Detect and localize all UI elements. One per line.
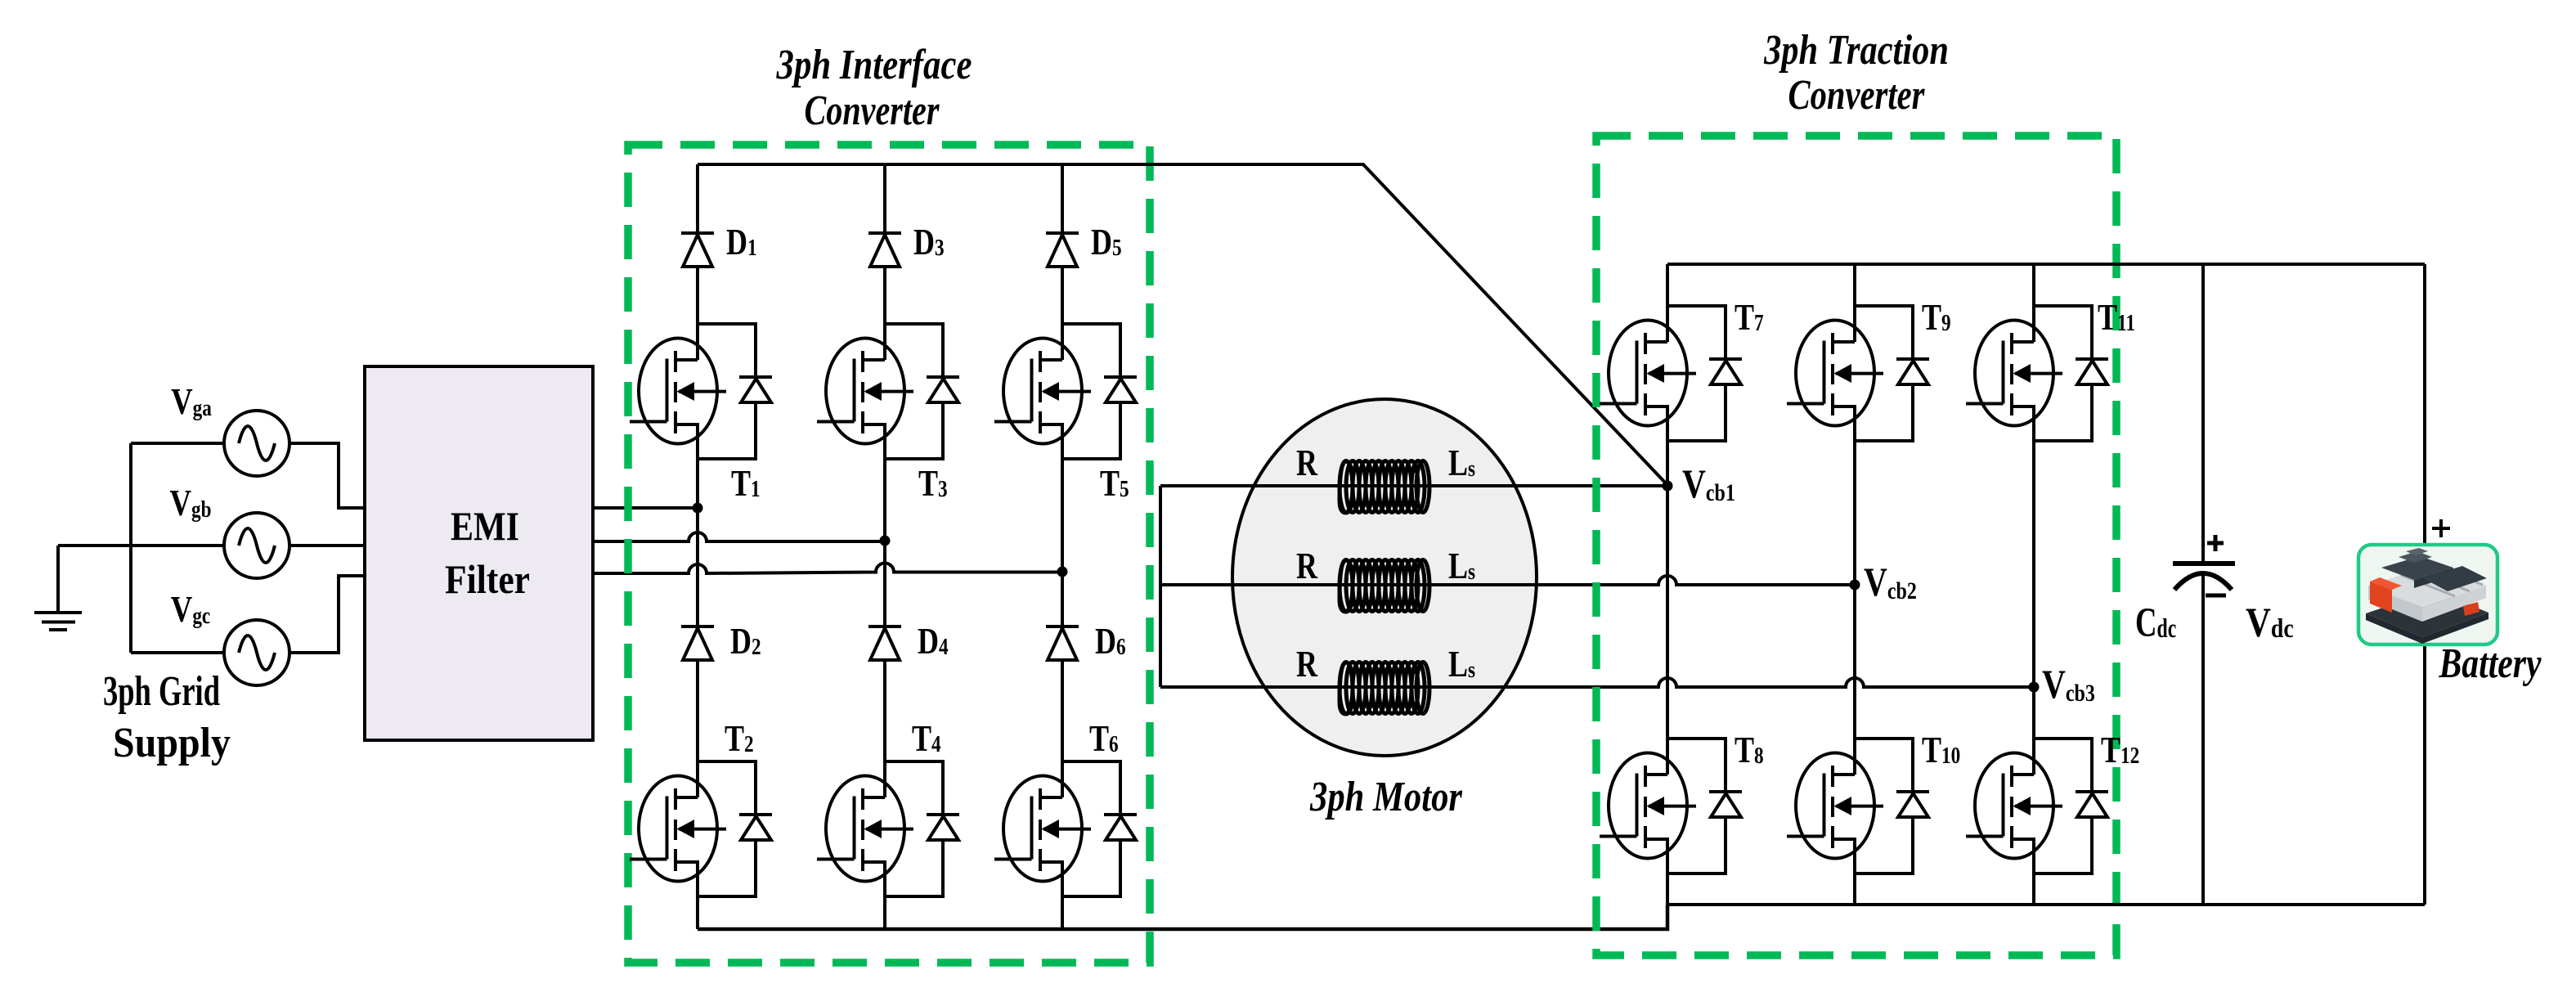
label 3ph Traction Converter — [1763, 27, 1949, 74]
inductor coil phase 2 — [1340, 560, 1429, 613]
interface converter dashed border — [628, 145, 1150, 963]
node A — [693, 503, 703, 514]
label Cdc — [2135, 599, 2176, 645]
wire: traction leg1 top — [1666, 264, 1669, 486]
wire: traction leg2 top — [1853, 264, 1856, 585]
transistor T3 — [817, 324, 959, 459]
svg-text:Filter: Filter — [445, 557, 530, 602]
node Vcb3 — [2029, 682, 2040, 693]
dark module right — [2423, 566, 2487, 591]
diode D5 — [1046, 233, 1079, 267]
svg-text:3ph Grid: 3ph Grid — [103, 667, 220, 715]
diode D4 — [868, 626, 901, 660]
ground — [34, 546, 131, 630]
svg-text:R: R — [1296, 442, 1318, 483]
label Vdc — [2246, 600, 2294, 646]
wire: traction leg2 bottom — [1853, 585, 1856, 905]
wire: traction bottom bus — [1667, 903, 2425, 906]
wire: traction leg3 top — [2032, 264, 2035, 687]
transistor T10 — [1787, 739, 1929, 873]
wire: source Vgc leads — [131, 576, 365, 653]
transistor T12 — [1966, 739, 2108, 873]
battery icon — [2358, 545, 2497, 644]
traction converter dashed border — [1596, 136, 2116, 955]
wire: phase C EMI to leg3 (hops over legs 1,2) — [593, 564, 1062, 574]
wire: interface leg2 top — [883, 164, 886, 541]
wire: Cdc branch — [2201, 264, 2205, 905]
wire: interface leg2 bottom — [883, 541, 886, 929]
wire: motor phase 3 to Vcb3 (hops over traction legs 1,2) — [1160, 678, 2034, 687]
top knob — [2399, 551, 2432, 563]
wire: interface bottom bus to traction — [698, 905, 1667, 929]
transistor T1 — [630, 324, 772, 459]
plus sign at battery — [2432, 519, 2450, 537]
svg-text:Battery: Battery — [2439, 640, 2542, 687]
transistor T4 — [817, 761, 959, 896]
wire: motor phase 2 to Vcb2 (hop over traction leg1) — [1160, 576, 1855, 585]
label Battery — [2439, 640, 2542, 687]
inductor coil phase 1 — [1340, 461, 1429, 514]
wire: source Vga leads — [131, 443, 365, 508]
AC source Vgc — [224, 620, 289, 685]
transistor T2 — [630, 761, 772, 896]
svg-text:3ph Motor: 3ph Motor — [1309, 774, 1462, 820]
diode D2 — [681, 626, 714, 660]
label 3ph Interface Converter — [776, 42, 972, 88]
diode D1 — [681, 233, 714, 267]
inductor coil phase 3 — [1340, 662, 1429, 715]
AC source Vgb — [224, 513, 289, 578]
wire: phase A EMI to leg1 — [593, 506, 698, 510]
wire: traction leg3 bottom — [2032, 687, 2035, 905]
wire: traction top bus — [1667, 263, 2425, 266]
wire: phase B EMI to leg2 (hop over leg1) — [593, 532, 885, 541]
label 3ph Grid Supply — [103, 667, 220, 715]
transistor T11 — [1966, 306, 2108, 441]
svg-text:Converter: Converter — [805, 88, 940, 134]
red cell — [2370, 582, 2392, 613]
svg-text:3ph Traction: 3ph Traction — [1763, 27, 1949, 74]
svg-text:Converter: Converter — [1788, 71, 1926, 119]
base skid — [2366, 591, 2488, 637]
capacitor Cdc — [2173, 535, 2235, 595]
wire: interface leg3 bottom — [1061, 572, 1064, 929]
node Vcb1 — [1663, 481, 1673, 492]
node B — [880, 536, 891, 546]
diode D3 — [868, 233, 901, 267]
wire: traction leg1 bottom — [1666, 486, 1669, 905]
svg-text:3ph Interface: 3ph Interface — [776, 42, 972, 88]
svg-text:R: R — [1296, 546, 1318, 586]
dark module left — [2381, 556, 2453, 580]
wire: source Vgb leads — [131, 544, 365, 547]
wire: interface leg1 bottom — [696, 508, 699, 929]
wire: interface leg3 top — [1061, 164, 1064, 572]
transistor T9 — [1787, 306, 1929, 441]
3ph motor body — [1232, 399, 1537, 756]
diode D6 — [1046, 626, 1079, 660]
wire: motor star bus — [1159, 486, 1162, 687]
light cell layer front face — [2368, 586, 2422, 622]
svg-text:R: R — [1296, 644, 1318, 685]
node C — [1057, 567, 1068, 577]
small red right — [2463, 602, 2480, 616]
node Vcb2 — [1850, 580, 1860, 591]
wire: battery branch — [2423, 264, 2426, 905]
svg-text:Supply: Supply — [113, 718, 231, 766]
wire: interface top bus + diagonal to Vcb1 — [698, 164, 1667, 485]
transistor T5 — [994, 324, 1137, 459]
AC source Vga — [224, 411, 289, 476]
svg-text:EMI: EMI — [451, 504, 519, 549]
wire: interface leg1 top — [696, 164, 699, 508]
EMI filter box — [365, 366, 593, 740]
transistor T8 — [1600, 739, 1742, 873]
wire: left bus of grid supply — [129, 443, 132, 653]
transistor T6 — [994, 761, 1137, 896]
light cell layer top face — [2368, 564, 2486, 608]
wire: motor phase 1 to Vcb1 — [1160, 484, 1667, 487]
transistor T7 — [1600, 306, 1742, 441]
